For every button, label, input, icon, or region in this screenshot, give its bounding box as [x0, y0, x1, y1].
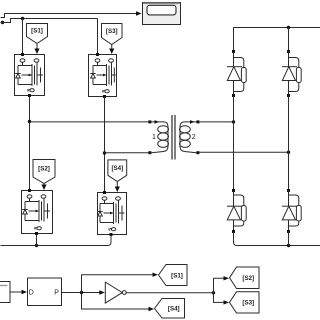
wire right leg mid [288, 96, 290, 191]
svg-text:2: 2 [192, 134, 196, 141]
diode D4 [282, 189, 301, 233]
diode D1 [227, 50, 246, 97]
svg-text:s: s [33, 227, 39, 230]
junction bottom bus [35, 244, 38, 247]
svg-text:[S4]: [S4] [168, 306, 180, 313]
wire bottom rail [234, 232, 320, 246]
from tag S2 [33, 160, 55, 191]
wire leg-B midpoint [104, 97, 106, 193]
scope SC1 [143, 3, 181, 25]
wire right leg bottom [288, 232, 290, 246]
goto tag S4 [155, 299, 185, 319]
wire secondary-bottom [200, 151, 289, 153]
from tag S1 [27, 24, 48, 55]
wire leg-A midpoint [29, 97, 31, 191]
goto tag S2 [230, 267, 260, 289]
goto tag S3 [230, 292, 260, 313]
arrowhead into goto S1 [153, 273, 159, 277]
wire bottom return bus [1, 236, 112, 246]
NOT gate U1 [105, 282, 126, 303]
wire Q3 drain [97, 19, 99, 54]
MOSFET Q1 [15, 53, 45, 97]
MOSFET Q4 [97, 191, 126, 236]
svg-text:[S3]: [S3] [242, 300, 254, 307]
junction top rail right leg [287, 26, 290, 29]
arrowhead into NOT gate [99, 290, 105, 294]
diode D2 [227, 189, 246, 233]
svg-text:[S2]: [S2] [38, 166, 50, 173]
junction secondary-top left leg [232, 120, 235, 123]
svg-text:[S3]: [S3] [106, 28, 118, 35]
arrowhead into goto S4 [149, 307, 155, 311]
arrowhead into scope [136, 11, 142, 15]
PWM generator block [28, 278, 62, 306]
wire right leg top [288, 28, 290, 52]
wire branch to goto S4 [82, 293, 150, 310]
wire branch to goto S3 [214, 293, 225, 303]
junction S2/S3 split [212, 291, 215, 294]
junction leg-B primary tap [103, 151, 106, 154]
wire secondary-top [200, 121, 234, 123]
wire Q1 drain [22, 19, 24, 54]
wire left leg mid [233, 96, 235, 191]
diode D3 [282, 50, 301, 97]
svg-text:P: P [54, 290, 59, 297]
arrowhead into goto S2 [224, 276, 230, 280]
wire P output [62, 292, 104, 294]
svg-text:[S2]: [S2] [242, 275, 254, 282]
junction P split [80, 291, 83, 294]
svg-text:[S1]: [S1] [31, 27, 43, 34]
wire branch to goto S2 [214, 278, 225, 293]
goto tag S1 [159, 265, 188, 286]
from tag S4 [108, 160, 127, 192]
wire source to PWM [10, 291, 22, 293]
from tag S3 [102, 24, 123, 55]
MOSFET Q2 [22, 189, 53, 235]
wire NOT output [126, 292, 213, 294]
wire scope-signal [1, 14, 137, 18]
junction secondary-bottom right leg [287, 151, 290, 154]
wire Q2 source down [36, 235, 38, 246]
svg-text:1: 1 [152, 134, 156, 141]
junction leg-A primary tap [28, 120, 31, 123]
svg-text:s: s [101, 90, 107, 93]
junction bus to Q1 drain [21, 17, 24, 20]
junction bottom rail right leg [287, 244, 290, 247]
wire branch to goto S1 [82, 275, 154, 293]
arrowhead into PWM [22, 290, 28, 294]
svg-text:D: D [29, 290, 34, 297]
MOSFET Q3 [89, 53, 117, 98]
svg-text:s: s [108, 228, 114, 231]
wire primary-bottom [105, 152, 149, 154]
svg-text:[S4]: [S4] [111, 165, 123, 172]
node left-edge input [1, 21, 4, 24]
svg-text:[S1]: [S1] [171, 272, 183, 279]
arrowhead into goto S3 [224, 300, 230, 304]
transformer T1 [148, 115, 199, 160]
wire top rail [234, 28, 320, 52]
svg-text:s: s [26, 89, 32, 92]
source block (cut at left edge) [0, 282, 10, 303]
wire primary-top [30, 121, 149, 123]
wire dc-plus bus [1, 19, 98, 23]
